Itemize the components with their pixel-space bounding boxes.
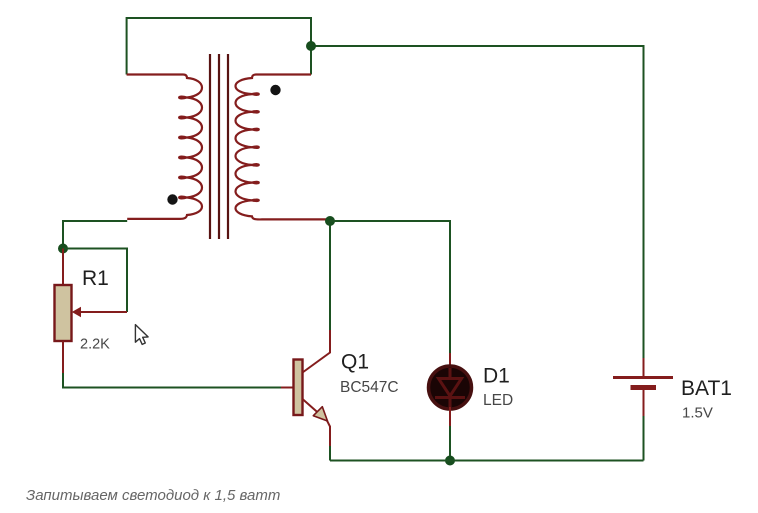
battery BAT1 bottom lead — [643, 390, 645, 416]
transistor Q1 base lead — [281, 387, 294, 389]
svg-text:D1: D1 — [483, 365, 510, 388]
phase dot left winding — [167, 194, 177, 204]
wire top rail to battery — [311, 46, 644, 358]
resistor R1 bottom lead — [62, 341, 64, 373]
svg-text:1.5V: 1.5V — [682, 405, 713, 422]
transistor Q1 collector — [303, 330, 331, 373]
LED D1 symbol — [435, 368, 465, 407]
mouse cursor — [135, 325, 148, 345]
wire node B to LED top — [330, 221, 450, 353]
battery BAT1 top lead — [643, 358, 645, 377]
LED D1 bottom pin — [449, 407, 451, 426]
transformer TR1 core — [210, 54, 228, 239]
svg-text:LED: LED — [483, 392, 513, 409]
wire battery bottom to rail — [643, 416, 645, 461]
transformer primary winding left — [127, 75, 202, 219]
svg-text:BAT1: BAT1 — [681, 377, 732, 400]
node C junction bottom rail — [445, 456, 455, 466]
svg-text:2.2K: 2.2K — [80, 337, 110, 353]
wire R1 wiper box — [63, 249, 127, 313]
phase dot right winding — [270, 85, 280, 95]
svg-text:R1: R1 — [82, 267, 109, 290]
svg-text:Запитываем светодиод к 1,5 ват: Запитываем светодиод к 1,5 ватт — [26, 487, 280, 504]
resistor R1 body — [55, 285, 72, 341]
transistor Q1 emitter — [303, 399, 331, 446]
battery BAT1 negative plate — [631, 385, 657, 390]
node B junction secondary/collector — [325, 216, 335, 226]
resistor R1 top lead — [62, 249, 64, 287]
transistor Q1 body bar — [294, 360, 303, 416]
wire LED bottom to ground rail — [449, 426, 451, 461]
wire bottom rail — [330, 460, 644, 462]
transformer secondary winding right — [236, 75, 327, 220]
wire R1 bottom to Q1 base — [63, 373, 281, 388]
wire collector node down — [329, 221, 331, 330]
svg-text:BC547C: BC547C — [340, 379, 399, 396]
transistor Q1 emitter arrow — [313, 407, 327, 421]
LED D1 body — [429, 366, 472, 409]
svg-text:Q1: Q1 — [341, 351, 369, 374]
battery BAT1 positive plate — [613, 376, 673, 379]
LED D1 top pin — [449, 353, 451, 366]
node A junction R1 top — [58, 244, 68, 254]
wire left winding bottom to node A — [63, 221, 127, 249]
wire emitter to bottom rail — [329, 446, 331, 461]
node junction top rail — [306, 41, 316, 51]
wire top feedback box — [127, 18, 311, 75]
resistor R1 wiper arrow — [80, 311, 127, 313]
